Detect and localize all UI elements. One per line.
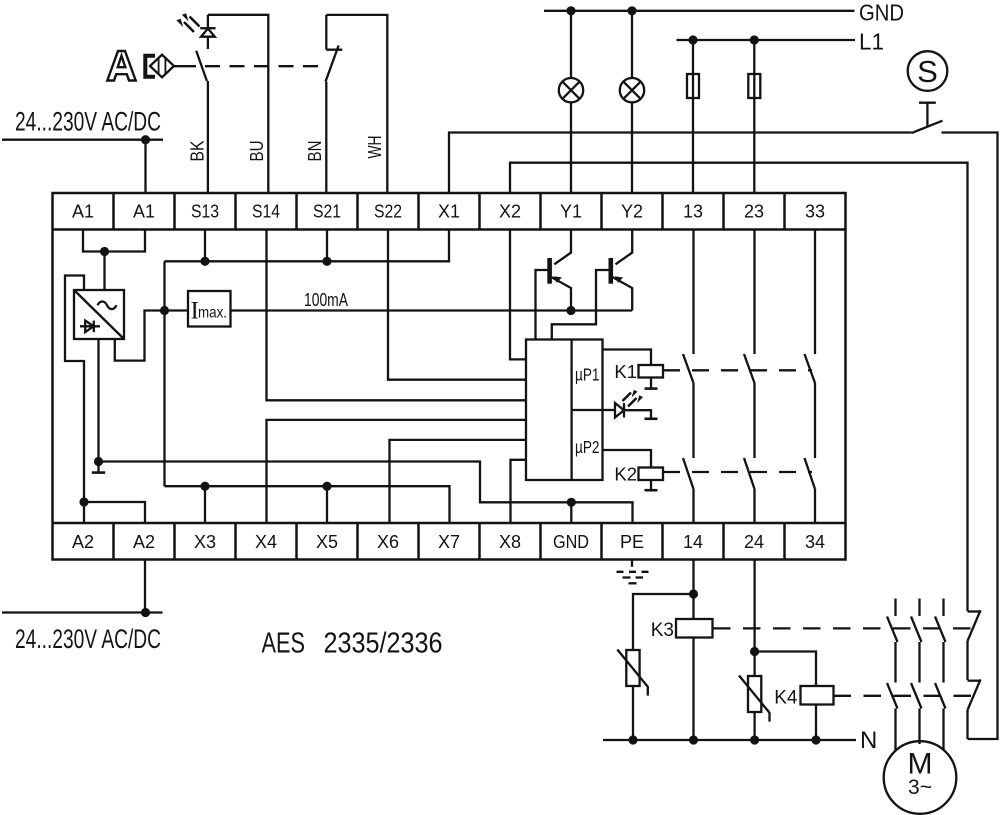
wire PSU loop to A2	[65, 276, 84, 524]
varistor R1	[617, 650, 648, 741]
K3 link dashed	[713, 627, 977, 629]
svg-text:14: 14	[683, 532, 703, 552]
terminal row edges	[53, 230, 846, 524]
terminal labels bottom row	[72, 532, 825, 552]
uP pin wire S22	[388, 230, 526, 380]
wire 100mA	[231, 309, 633, 311]
label 24...230V AC/DC bottom	[15, 624, 161, 654]
junction A2	[79, 497, 88, 506]
label 100mA	[304, 289, 348, 310]
magnet symbol	[145, 56, 155, 77]
K2 link dashed	[663, 471, 812, 473]
svg-text:K4: K4	[774, 688, 798, 709]
svg-text:PE: PE	[620, 532, 644, 552]
junction X5 bus	[322, 482, 331, 491]
junction Imax in	[160, 306, 169, 315]
wire X1 to S	[449, 133, 912, 194]
svg-text:X1: X1	[438, 202, 460, 222]
svg-text:K3: K3	[651, 620, 674, 641]
svg-text:A2: A2	[133, 532, 155, 552]
fuse F2	[748, 40, 760, 193]
junction L1 fuse2	[750, 35, 759, 44]
relay coil K1	[603, 350, 664, 389]
relay coil K2	[603, 450, 664, 490]
svg-text:13: 13	[683, 202, 703, 222]
junction GND lamp2	[627, 6, 636, 15]
svg-text:23: 23	[744, 202, 764, 222]
uP pin wire S14	[267, 230, 527, 401]
junction supply top	[141, 135, 150, 144]
svg-text:2335/2336: 2335/2336	[324, 628, 443, 660]
junction 14 varistor	[689, 589, 698, 598]
svg-text:X3: X3	[194, 532, 216, 552]
label AES 2335/2336	[262, 628, 443, 660]
label uP2	[575, 437, 600, 457]
junction 100mA Q1	[566, 306, 575, 315]
wire PSU 0V rail	[92, 339, 633, 523]
svg-text:BN: BN	[304, 141, 325, 162]
supply rail 24..230V top	[2, 140, 163, 193]
K4 aux NC contact	[968, 679, 982, 710]
junction supply bottom	[141, 608, 150, 617]
mechanical link (dashed)	[205, 65, 326, 67]
junction N varistor2	[750, 735, 759, 744]
label uP1	[575, 365, 600, 385]
label motor M	[908, 748, 933, 800]
reed contact (NO)	[196, 51, 207, 81]
svg-text:K1: K1	[614, 361, 637, 382]
test bus top	[165, 230, 450, 262]
current limiter Imax	[188, 291, 231, 327]
label GND net	[859, 0, 904, 26]
transistor Q2	[552, 230, 632, 340]
svg-text:Y2: Y2	[621, 202, 643, 222]
relay contact 23-24	[744, 230, 755, 524]
junction N varistor1	[628, 735, 637, 744]
relay coil K4	[801, 686, 834, 740]
svg-text:A1: A1	[133, 202, 155, 222]
junction A1	[100, 247, 109, 256]
fuse F1	[687, 40, 699, 193]
module outline AES 2335/2336	[53, 193, 846, 560]
uP block U1	[526, 340, 603, 481]
svg-text:24...230V AC/DC: 24...230V AC/DC	[15, 107, 161, 137]
svg-text:S21: S21	[313, 202, 341, 222]
svg-text:S14: S14	[252, 202, 280, 222]
label WH	[364, 136, 385, 159]
svg-text:A2: A2	[72, 532, 94, 552]
contactor K4 main contacts	[887, 683, 946, 750]
pushbutton S	[908, 51, 948, 126]
wire WH S22 loop	[326, 15, 387, 193]
wire BK to S13	[207, 81, 209, 193]
wire 24 branch to K4	[755, 652, 816, 687]
junction S13 bus	[200, 257, 209, 266]
LED1 emission arrows	[184, 17, 200, 33]
junction N K4	[811, 735, 820, 744]
switch contact of S	[912, 121, 943, 133]
svg-text:K2: K2	[614, 464, 637, 485]
motor M	[884, 741, 957, 814]
NC contact S21	[326, 15, 343, 82]
svg-text:S: S	[917, 54, 938, 89]
power supply unit	[74, 290, 124, 339]
svg-text:WH: WH	[364, 136, 385, 159]
svg-text:X5: X5	[316, 532, 338, 552]
relay contact 13-14	[683, 230, 694, 524]
junction GND terminal	[567, 498, 576, 507]
junction 0V	[94, 457, 103, 466]
varistor R2	[739, 676, 770, 741]
wire A2 pair junction	[84, 502, 145, 523]
lamp H1	[559, 11, 583, 193]
wire A1 pair junction	[83, 230, 145, 291]
svg-text:L1: L1	[859, 29, 884, 55]
label S button	[917, 54, 938, 89]
terminal dividers	[114, 193, 785, 560]
label BU	[246, 141, 267, 162]
junction GND lamp1	[566, 6, 575, 15]
K1 link dashed	[663, 369, 812, 371]
label K4	[774, 688, 798, 709]
uP pin wire X2	[510, 230, 526, 360]
svg-text:S22: S22	[374, 202, 402, 222]
svg-text:N: N	[860, 727, 877, 754]
supply rail 24..230V bottom	[2, 560, 163, 613]
svg-text:max.: max.	[198, 305, 227, 322]
svg-text:BU: BU	[246, 141, 267, 162]
LED2 indicator	[603, 393, 658, 419]
wire to varistor R1	[633, 594, 694, 650]
wire 14 to K3	[692, 560, 694, 741]
svg-text:24...230V AC/DC: 24...230V AC/DC	[15, 624, 161, 654]
contactor K3 main contacts	[887, 599, 946, 683]
PE earth symbol	[617, 560, 649, 584]
svg-text:X6: X6	[377, 532, 399, 552]
svg-text:X2: X2	[499, 202, 521, 222]
svg-text:X8: X8	[499, 532, 521, 552]
svg-text:AES: AES	[262, 628, 306, 660]
relay contact 33-34	[805, 230, 816, 524]
label BN	[304, 141, 325, 162]
sensor head diamond	[150, 55, 174, 78]
lamp H2	[620, 11, 644, 193]
wire PSU out to Imax	[115, 311, 188, 361]
svg-text:34: 34	[805, 532, 825, 552]
wire S13 loop to S14	[208, 15, 268, 193]
K3 aux NC contact	[968, 610, 982, 641]
net GND	[544, 10, 855, 12]
svg-text:24: 24	[744, 532, 764, 552]
svg-text:S13: S13	[191, 202, 219, 222]
svg-text:µP1: µP1	[575, 365, 600, 385]
test bus bottom	[165, 486, 450, 523]
junction 24 K4	[750, 647, 759, 656]
uP pin wire X6	[390, 440, 527, 523]
K4 link dashed	[834, 695, 978, 697]
wire BN to S21	[325, 82, 327, 193]
junction L1 fuse1	[688, 35, 697, 44]
svg-text:33: 33	[805, 202, 825, 222]
label L1 net	[859, 29, 884, 55]
actuator label A	[107, 51, 135, 81]
uP pin wire X4	[267, 420, 527, 523]
svg-text:BK: BK	[187, 140, 208, 162]
svg-text:X4: X4	[255, 532, 277, 552]
label 24...230V AC/DC top	[15, 107, 161, 137]
junction S21 bus	[322, 257, 331, 266]
junction X3 bus	[200, 482, 209, 491]
wire aux chain bottom	[966, 710, 968, 739]
terminal labels top row	[72, 202, 825, 222]
svg-text:A1: A1	[72, 202, 94, 222]
wire X2 to aux chain	[510, 163, 968, 611]
label N net	[860, 727, 877, 754]
label K1	[614, 361, 637, 382]
wire 24 to N	[753, 560, 755, 677]
net L1	[677, 39, 856, 41]
wire aux chain middle	[966, 641, 968, 680]
svg-text:GND: GND	[859, 0, 904, 26]
wire S to aux chain	[942, 133, 998, 740]
junction N K3	[689, 735, 698, 744]
net N	[603, 739, 856, 741]
LED1 sensor indicator	[200, 28, 215, 49]
sensor lead wire	[174, 65, 196, 67]
uP pin wire X8	[511, 460, 527, 523]
label BK	[187, 140, 208, 162]
svg-text:GND: GND	[553, 532, 589, 552]
svg-text:µP2: µP2	[575, 437, 600, 457]
label Imax	[191, 298, 228, 325]
svg-text:Y1: Y1	[560, 202, 582, 222]
relay coil K3	[676, 619, 713, 638]
transistor Q1	[536, 230, 572, 340]
vertical feed wire	[163, 261, 165, 486]
svg-text:X7: X7	[438, 532, 460, 552]
svg-text:100mA: 100mA	[304, 289, 348, 310]
label K3	[651, 620, 674, 641]
label K2	[614, 464, 637, 485]
svg-text:3~: 3~	[908, 776, 932, 799]
